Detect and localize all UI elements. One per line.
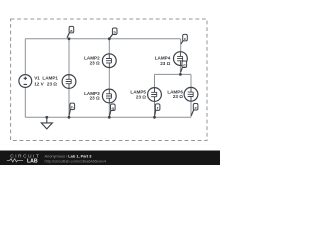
label V1 12 V (34, 76, 44, 87)
junction node f dot (153, 116, 156, 119)
label LAMP1 23 Ohm (42, 76, 58, 87)
lamp LAMP2 (102, 54, 116, 68)
label LAMP3 23 Ohm (84, 91, 100, 101)
lamp LAMP3 (102, 89, 116, 103)
wire left branch lower (24, 87, 26, 117)
svg-text:V1: V1 (34, 76, 40, 81)
svg-text:23 Ω: 23 Ω (136, 95, 146, 100)
wire lamp1 branch lower (68, 88, 70, 117)
svg-text:23 Ω: 23 Ω (173, 94, 183, 99)
svg-text:http://circuitlab.com/c/3ka64b: http://circuitlab.com/c/3ka64b5vwv4 (45, 159, 107, 164)
node f (155, 104, 160, 116)
wire lamp5 branch lower (154, 102, 156, 118)
svg-text:LAMP1: LAMP1 (42, 76, 58, 81)
wire lamp4 branch upper (180, 39, 182, 52)
wire lamp1 branch upper (68, 39, 70, 75)
svg-text:12 V: 12 V (34, 82, 44, 87)
junction node a dot (68, 37, 71, 40)
wire mid-right horizontal (155, 73, 192, 75)
wire lamp2-lamp3 middle (108, 68, 110, 89)
svg-text:LAB: LAB (27, 159, 38, 165)
wire top horizontal (25, 38, 180, 40)
svg-text:LAMP4: LAMP4 (155, 56, 171, 61)
wire lamp4 branch lower (179, 66, 181, 75)
voltage source V1 (19, 75, 32, 88)
wire left branch upper (24, 39, 26, 75)
footer logo resistor zigzag (7, 159, 23, 162)
lamp LAMP5 (148, 88, 162, 102)
wire lamp2 branch upper (108, 39, 110, 54)
svg-text:23 Ω: 23 Ω (90, 60, 100, 65)
label LAMP5 23 Ohm (130, 90, 146, 100)
wire lamp6 branch lower (190, 101, 192, 117)
svg-text:23 Ω: 23 Ω (90, 96, 100, 101)
lamp LAMP6 (184, 87, 198, 101)
wire lamp6 branch upper (190, 74, 192, 87)
node e (191, 104, 198, 116)
svg-text:23 Ω: 23 Ω (160, 61, 170, 66)
wire lamp5 branch upper (154, 74, 156, 87)
junction node b dot (108, 37, 111, 40)
node c (181, 34, 187, 44)
junction ground dot (45, 116, 48, 119)
footer bar (0, 151, 220, 166)
label LAMP6 23 Ohm (167, 90, 183, 100)
node h (69, 103, 75, 116)
node b (110, 28, 117, 38)
junction node d dot (179, 73, 182, 76)
lamp LAMP1 (62, 75, 76, 89)
label LAMP4 23 Ohm (155, 56, 171, 66)
junction node h dot (68, 116, 71, 119)
wire lamp3 branch lower (108, 103, 110, 117)
lamp LAMP4 (174, 52, 188, 66)
junction node g dot (108, 116, 111, 119)
node a (67, 26, 74, 37)
ground (41, 117, 52, 129)
svg-text:23 Ω: 23 Ω (47, 82, 57, 87)
label LAMP2 23 Ohm (84, 56, 100, 66)
schematic dashed border (11, 19, 207, 141)
node d (181, 61, 187, 72)
node g (110, 104, 116, 116)
wire bottom horizontal (25, 116, 191, 118)
